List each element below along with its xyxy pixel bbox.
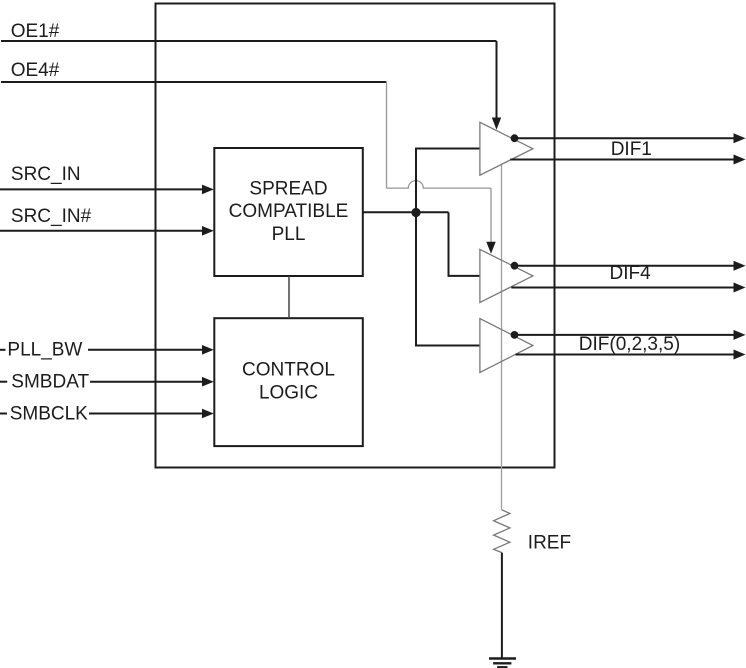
wire OE4# vertical drop (thin) [386,81,388,188]
resistor IREF zigzag [494,510,510,553]
node PLL output junction [411,208,420,217]
svg-text:PLL: PLL [272,224,306,245]
wire PLL_BW [88,349,203,351]
svg-text:LOGIC: LOGIC [259,382,318,403]
wire SMBCLK leading dash [0,413,7,415]
arrowhead DIF(0,2,3,5) complement [734,350,746,360]
wire junction down to buffer 3 input level [415,212,417,345]
svg-text:OE1#: OE1# [11,21,60,42]
wire DIF4 complement output [511,287,734,289]
wire resistor to ground [501,553,503,659]
wire DIF1 complement output [510,159,734,161]
wire SRC_IN [0,188,203,190]
wire PLL_BW leading dash [0,349,6,351]
arrowhead SRC_IN into PLL [202,185,214,195]
svg-text:DIF4: DIF4 [610,263,652,284]
buffer 1 (DIF1 output driver) [480,122,533,175]
wire junction right toward buffer 2 [416,211,449,213]
wire DIF1 true output [514,137,735,139]
buffer 2 (DIF4 output driver) [480,249,533,302]
node DIF(0,2,3,5) output dot [511,331,519,339]
arrowhead DIF(0,2,3,5) true [734,330,746,340]
arrowhead OE4# into buffer 2 [486,242,495,254]
wire OE1# vertical drop [496,41,498,119]
arrowhead PLL_BW into control logic [202,345,214,355]
wire to buffer 2 input [448,275,480,277]
arrowhead SMBDAT into control logic [202,377,214,387]
svg-text:DIF(0,2,3,5): DIF(0,2,3,5) [579,334,680,355]
arrowhead SRC_IN# into PLL [202,226,214,236]
control logic block [214,318,362,446]
svg-text:IREF: IREF [528,533,571,554]
node DIF1 output dot [511,134,519,142]
wire SRC_IN# [0,230,203,232]
wire OE4# horizontal [1,81,387,83]
wire DIF4 true output [513,265,734,267]
outer chip boundary box [156,4,555,468]
wire PLL to control logic [288,276,290,318]
wire OE4# horizontal run with hop over PLL net [387,181,492,189]
wire PLL output to junction [363,211,416,213]
arrowhead DIF1 true [734,133,746,143]
wire DIF(0,2,3,5) true output [513,334,734,336]
arrowhead DIF4 true [734,261,746,271]
wire down to buffer 2 input level [448,212,450,276]
arrowhead DIF4 complement [734,283,746,293]
svg-text:SPREAD: SPREAD [249,178,327,199]
IREF net wire through buffers [501,165,503,510]
wire junction up to buffer 1 input [415,148,417,213]
svg-text:COMPATIBLE: COMPATIBLE [229,201,349,222]
wire SMBDAT leading dash [0,381,7,383]
svg-text:SRC_IN: SRC_IN [11,164,81,185]
svg-text:SRC_IN#: SRC_IN# [11,206,92,227]
node DIF4 output dot [511,262,519,270]
svg-text:DIF1: DIF1 [611,139,652,160]
ground [489,657,516,659]
svg-text:OE4#: OE4# [11,60,60,81]
wire DIF(0,2,3,5) complement output [516,354,735,356]
PLL block: spread compatible PLL [214,148,362,276]
arrowhead OE1# into buffer 1 [492,118,501,130]
svg-text:PLL_BW: PLL_BW [7,340,82,361]
wire SMBDAT [90,381,203,383]
wire to buffer 3 input [415,345,480,347]
svg-text:CONTROL: CONTROL [242,360,335,381]
wire OE4# vertical drop to buffer 2 [490,188,492,242]
buffer 3 (DIF(0,2,3,5) output drivers) [480,319,533,373]
svg-text:SMBCLK: SMBCLK [10,403,88,424]
wire to buffer 1 input [415,148,480,150]
wire OE1# horizontal [1,40,497,42]
wire SMBCLK [89,413,203,415]
arrowhead DIF1 complement [734,155,746,165]
arrowhead SMBCLK into control logic [202,409,214,419]
svg-text:SMBDAT: SMBDAT [11,372,89,393]
